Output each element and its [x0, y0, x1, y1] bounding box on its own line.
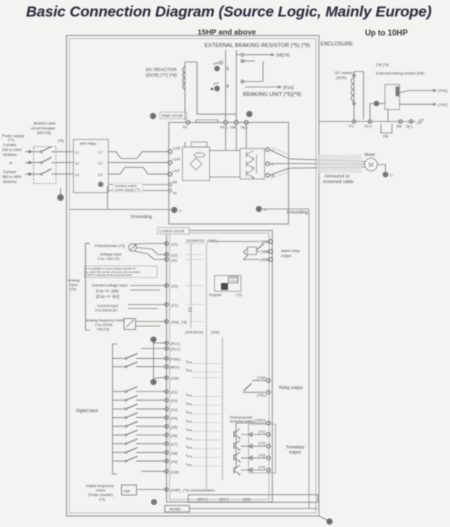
- right P(+) riser: [370, 104, 374, 120]
- thermal contact dot upper: [214, 61, 223, 71]
- svg-text:(TH2): (TH2): [438, 103, 447, 107]
- X1 terminal: [113, 387, 221, 397]
- motor: [365, 152, 378, 171]
- right terminal bus: [319, 121, 416, 123]
- svg-text:N(-): N(-): [406, 125, 412, 129]
- DC reactor loop wires: [185, 62, 236, 121]
- enclosure corner ground: [319, 516, 333, 525]
- aux power wire T0: [108, 190, 169, 192]
- svg-text:(*2): (*2): [236, 293, 242, 297]
- svg-text:0 to +10V DC: 0 to +10V DC: [98, 257, 121, 261]
- FMP terminal: [165, 488, 215, 493]
- control header notes: [186, 239, 217, 243]
- svg-text:meter: meter: [96, 489, 106, 493]
- svg-text:L1: L1: [75, 151, 79, 155]
- svg-text:(SD): (SD): [243, 497, 252, 501]
- svg-text:L3: L3: [75, 173, 79, 177]
- right subdiagram labels: [335, 63, 424, 80]
- fan outline: [271, 147, 290, 179]
- DC reactor coil: [183, 67, 185, 89]
- ground terminal right of main circuit: [256, 206, 309, 214]
- X9 terminal: [113, 456, 221, 466]
- filter ground terminal: [98, 182, 107, 210]
- right terminal P1: [349, 120, 356, 129]
- svg-text:L3': L3': [98, 173, 103, 177]
- terminal P1: [183, 121, 190, 130]
- svg-text:(DCR): (DCR): [336, 76, 346, 80]
- armoured cable shade: [317, 155, 362, 174]
- svg-text:ENCLOSURE: ENCLOSURE: [321, 42, 354, 48]
- svg-text:BRAKING UNIT (*5)(*9): BRAKING UNIT (*5)(*9): [243, 92, 301, 98]
- aux power wire R0: [108, 184, 169, 186]
- internal bus wires: [191, 243, 223, 490]
- svg-text:(Y3): (Y3): [259, 453, 266, 457]
- grounding wire left: [70, 210, 172, 219]
- analog terminal 12: [165, 253, 204, 258]
- svg-text:(V2): (V2): [171, 284, 178, 288]
- PLC terminal: [165, 341, 180, 346]
- right thermal arrow 1: [400, 89, 448, 93]
- wires MCCB to filter: [56, 152, 73, 174]
- analog terminal FM: [165, 320, 204, 325]
- connector strip: [188, 495, 317, 503]
- svg-text:R0: R0: [173, 181, 178, 185]
- analog freq meter symbol: [124, 319, 167, 330]
- svg-text:Analog frequency meter: Analog frequency meter: [86, 319, 126, 323]
- svg-text:power supply (*7): power supply (*7): [115, 188, 140, 192]
- svg-text:(FWD): (FWD): [170, 357, 181, 361]
- svg-text:DB(*9): DB(*9): [277, 53, 291, 58]
- svg-text:(X7): (X7): [171, 443, 178, 447]
- svg-text:screened cable: screened cable: [323, 179, 354, 184]
- CM2 terminal: [141, 470, 179, 475]
- svg-text:(X6): (X6): [171, 434, 178, 438]
- right DCR coil: [351, 78, 354, 101]
- svg-text:3-phase: 3-phase: [3, 170, 16, 174]
- svg-text:(P24): (P24): [283, 85, 294, 90]
- svg-text:Alarm relay: Alarm relay: [281, 249, 300, 253]
- svg-text:L1': L1': [98, 151, 103, 155]
- aux power label: [114, 183, 143, 192]
- svg-text:(*3)(*7) instead of the potent: (*3)(*7) instead of the potentiometer.: [86, 273, 133, 277]
- RFI filter box: [73, 139, 108, 192]
- wire filter to L1/R with dip: [108, 152, 169, 159]
- svg-text:L2/S: L2/S: [173, 157, 181, 161]
- riser bulge contacts: [225, 67, 229, 71]
- digital input brace: [76, 344, 117, 474]
- input wire L3: [25, 172, 41, 176]
- svg-text:(X2): (X2): [171, 399, 178, 403]
- svg-text:FM (*3): FM (*3): [97, 328, 109, 332]
- control circuit box: [167, 231, 273, 503]
- svg-text:Up to 10HP: Up to 10HP: [365, 29, 408, 38]
- svg-text:(PLC): (PLC): [171, 348, 181, 352]
- DC reactor label: [146, 67, 178, 77]
- main circuit label: [160, 112, 187, 118]
- svg-text:(SW): (SW): [211, 331, 219, 335]
- IGBT block: [240, 149, 265, 180]
- svg-text:Relay output: Relay output: [279, 385, 303, 390]
- svg-text:(*8) (*9): (*8) (*9): [376, 63, 389, 67]
- right DB hangdown: [381, 124, 392, 139]
- analog terminal 13: [165, 242, 204, 247]
- keypad: [209, 276, 242, 298]
- svg-text:DB: DB: [231, 126, 237, 130]
- svg-text:L2': L2': [98, 161, 103, 165]
- right braking resistor box: [385, 85, 400, 122]
- svg-text:Basic Connection Diagram (Sour: Basic Connection Diagram (Source Logic, …: [26, 4, 432, 21]
- X6 terminal: [113, 430, 221, 440]
- svg-text:380 to 480V: 380 to 480V: [2, 175, 22, 179]
- voltage input label: [98, 253, 121, 262]
- svg-text:L3/T: L3/T: [173, 169, 181, 173]
- svg-text:Grounding: Grounding: [287, 210, 309, 215]
- marker circle right: [246, 111, 252, 117]
- svg-text:(CM): (CM): [171, 470, 179, 474]
- Y5 relay output: [243, 376, 303, 397]
- MCCB label: [31, 120, 56, 135]
- X2 terminal: [113, 395, 221, 405]
- svg-text:Keypad: Keypad: [209, 293, 222, 297]
- svg-text:4 to 20mA DC: 4 to 20mA DC: [95, 309, 118, 313]
- svg-text:output: output: [289, 450, 301, 455]
- pot wires: [134, 244, 167, 260]
- svg-text:Inverted voltage input: Inverted voltage input: [92, 284, 127, 288]
- svg-text:Motor: Motor: [365, 152, 376, 157]
- svg-text:(DCR) (*7) (*9): (DCR) (*7) (*9): [146, 73, 177, 78]
- svg-text:L1/R: L1/R: [173, 147, 181, 151]
- inverted voltage wires: [130, 286, 167, 291]
- svg-text:(FMP): (FMP): [171, 489, 181, 493]
- svg-text:(PLC): (PLC): [171, 342, 181, 346]
- svg-text:(X8): (X8): [171, 451, 178, 455]
- X3 terminal: [113, 404, 221, 414]
- svg-text:Digital input: Digital input: [76, 408, 99, 413]
- svg-text:output: output: [281, 254, 291, 258]
- control circuit label: [158, 228, 190, 235]
- terminal P(+): [221, 121, 228, 130]
- svg-text:(CMY): (CMY): [255, 419, 266, 423]
- X7 terminal: [113, 439, 221, 449]
- analog terminal C1: [165, 303, 204, 311]
- svg-text:(MCCB): (MCCB): [37, 130, 52, 135]
- CMY terminal: [236, 419, 270, 470]
- analog terminal V2: [165, 284, 204, 289]
- svg-text:0 to 10Vdc: 0 to 10Vdc: [95, 323, 113, 327]
- svg-text:RFI Filter: RFI Filter: [80, 141, 97, 146]
- right DCR loop: [354, 72, 364, 120]
- svg-text:(*3) communication: (*3) communication: [183, 489, 215, 493]
- svg-text:(0 to +/- 5V): (0 to +/- 5V): [96, 294, 120, 299]
- rectifier block: [183, 142, 210, 181]
- svg-text:Digital frequency: Digital frequency: [86, 484, 114, 488]
- X5 terminal: [113, 422, 221, 432]
- CM terminal: [165, 376, 221, 381]
- svg-text:External braking resistor (DB): External braking resistor (DB): [376, 72, 424, 76]
- svg-text:P(+): P(+): [365, 125, 372, 129]
- svg-text:(30A): (30A): [261, 240, 270, 244]
- digital frequency meter label: [86, 484, 114, 502]
- transistor Y2: [234, 441, 270, 451]
- svg-text:DC reactor: DC reactor: [335, 71, 354, 75]
- svg-text:(12): (12): [171, 253, 178, 257]
- svg-text:(SOURCE): (SOURCE): [186, 239, 204, 243]
- motor ground: [377, 165, 393, 178]
- supply ground: [57, 188, 63, 201]
- svg-text:(X1): (X1): [171, 391, 178, 395]
- svg-text:EXTERNAL BRAKING RESISTOR (*5): EXTERNAL BRAKING RESISTOR (*5) (*9): [205, 43, 311, 49]
- transistor output label: [286, 445, 305, 455]
- right thermal arrow 2: [400, 103, 448, 107]
- svg-text:(30C): (30C): [261, 258, 270, 262]
- input wire L1: [25, 150, 41, 154]
- right junction dot: [374, 101, 385, 106]
- svg-text:(Y4): (Y4): [259, 466, 266, 470]
- analog freq meter label: [86, 319, 126, 332]
- control ground: [151, 499, 157, 505]
- svg-text:Main circuit: Main circuit: [162, 113, 184, 118]
- svg-text:(Y5C): (Y5C): [257, 394, 267, 398]
- svg-text:Potentiometer (*3): Potentiometer (*3): [95, 244, 125, 248]
- svg-text:(*3): (*3): [99, 498, 105, 502]
- jumper P1-P(+): [196, 120, 218, 123]
- transistor Y4: [234, 465, 270, 475]
- current input label: [95, 304, 118, 313]
- transistor Y3: [234, 452, 270, 462]
- FWD terminal: [113, 354, 221, 364]
- digital header notes: [185, 331, 219, 335]
- svg-text:(REV): (REV): [170, 366, 180, 370]
- svg-text:DC REACTOR: DC REACTOR: [146, 67, 178, 72]
- svg-text:(FM): (FM): [171, 320, 179, 324]
- svg-text:(CM): (CM): [171, 377, 179, 381]
- svg-text:Current input: Current input: [97, 304, 118, 308]
- svg-text:(13): (13): [171, 242, 178, 246]
- svg-text:3-phase: 3-phase: [3, 143, 16, 147]
- svg-text:(TH1): (TH1): [438, 89, 447, 93]
- svg-text:(*8): (*8): [181, 320, 187, 324]
- DB arrow out: [236, 53, 290, 58]
- analog terminal 11: [165, 258, 204, 263]
- enclosure box: [67, 36, 320, 517]
- svg-text:(X5): (X5): [171, 425, 178, 429]
- current input wires: [128, 305, 167, 309]
- X4 terminal: [113, 413, 221, 423]
- REV terminal: [113, 362, 221, 372]
- svg-text:(Y2): (Y2): [259, 442, 266, 446]
- svg-text:(*6): (*6): [58, 139, 64, 143]
- ground bus down right side: [308, 209, 310, 509]
- ground terminal left of main circuit: [171, 207, 182, 213]
- svg-text:FMP: FMP: [124, 490, 131, 494]
- svg-text:(DX-): (DX-): [220, 497, 230, 501]
- MCCB box: [34, 147, 56, 184]
- wire filter to L2/S: [108, 162, 169, 164]
- svg-text:Armoured or: Armoured or: [325, 174, 351, 179]
- inverter input terminals: [168, 147, 181, 196]
- transistor output group box: [249, 424, 276, 473]
- potentiometer: [95, 244, 137, 252]
- transistor Y1: [234, 429, 270, 439]
- svg-text:50/60Hz: 50/60Hz: [3, 153, 17, 157]
- svg-text:(SOURCE): (SOURCE): [185, 331, 203, 335]
- svg-text:(X9): (X9): [171, 460, 178, 464]
- svg-text:Voltage input: Voltage input: [100, 253, 121, 257]
- thermal contact dot lower: [211, 83, 220, 91]
- svg-text:Control circuit: Control circuit: [159, 229, 185, 234]
- alarm relay: [210, 240, 273, 263]
- svg-text:(SW1): (SW1): [207, 239, 217, 243]
- braking unit stubs: [241, 60, 263, 83]
- svg-text:RS485: RS485: [170, 508, 181, 512]
- svg-text:(Y1): (Y1): [259, 430, 266, 434]
- terminal DB: [231, 121, 239, 130]
- svg-text:Grounding: Grounding: [131, 214, 153, 219]
- svg-text:DB: DB: [383, 135, 389, 139]
- common wire with junction dots: [151, 337, 167, 385]
- dual purpose switch note: [230, 416, 254, 424]
- X8 terminal: [113, 448, 221, 458]
- output terminals UVW: [266, 148, 275, 178]
- svg-text:DB: DB: [397, 125, 403, 129]
- wire filter to L3/T with hump: [108, 167, 169, 174]
- svg-text:(*1):: (*1):: [8, 138, 15, 142]
- svg-text:P1: P1: [349, 125, 354, 129]
- alarm relay label: [281, 249, 300, 258]
- svg-text:0 to +/- 10V: 0 to +/- 10V: [96, 289, 119, 294]
- power supply label: [2, 134, 24, 184]
- svg-text:200 to 230V: 200 to 230V: [2, 148, 22, 152]
- svg-text:(11): (11): [171, 258, 177, 262]
- svg-text:T0: T0: [173, 192, 177, 196]
- svg-text:Analog: Analog: [68, 279, 79, 283]
- svg-text:(DX+): (DX+): [198, 497, 209, 501]
- terminal N(-): [241, 121, 248, 130]
- svg-text:(X4): (X4): [171, 417, 178, 421]
- svg-text:P(+): P(+): [221, 126, 228, 130]
- svg-text:50/60Hz: 50/60Hz: [3, 180, 17, 184]
- right terminal N(-): [406, 119, 424, 129]
- inverted voltage input label: [92, 284, 127, 299]
- analog input bracket: [68, 243, 90, 330]
- svg-text:input: input: [70, 283, 78, 287]
- svg-text:(Pulse counter): (Pulse counter): [88, 493, 113, 497]
- note box: [85, 266, 158, 278]
- svg-text:P1: P1: [183, 126, 188, 130]
- digital frequency meter symbol: [122, 485, 167, 495]
- main circuit box: [169, 122, 289, 224]
- svg-text:L2: L2: [75, 161, 79, 165]
- RS485 box: [165, 506, 318, 513]
- svg-text:(30B): (30B): [261, 250, 270, 254]
- output fan lines: [269, 150, 365, 176]
- input wire L2: [25, 161, 41, 165]
- svg-text:(X3): (X3): [171, 408, 178, 412]
- armoured cable label: [323, 174, 354, 185]
- svg-text:(*3): (*3): [70, 288, 76, 292]
- braking riser P(+): [225, 50, 227, 121]
- braking riser DB: [235, 50, 237, 121]
- svg-text:G: G: [390, 174, 393, 178]
- right terminal DB: [397, 120, 403, 129]
- svg-text:M: M: [369, 163, 374, 169]
- PLC2 terminal: [141, 347, 180, 352]
- svg-text:(Y5A): (Y5A): [257, 376, 266, 380]
- svg-text:(C1): (C1): [171, 303, 178, 307]
- P arrow out: [245, 85, 294, 90]
- right terminal P(+): [365, 120, 372, 129]
- DC link wires: [210, 124, 247, 177]
- marker circle left: [150, 113, 156, 119]
